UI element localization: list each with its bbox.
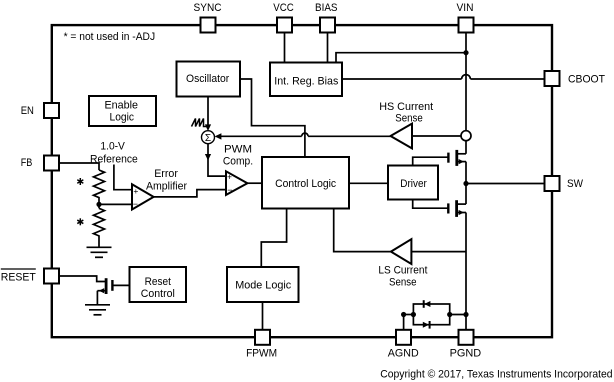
wire RESET to transistor drain	[59, 276, 106, 282]
star mark R1	[77, 178, 83, 185]
svg-text:−: −	[133, 199, 138, 209]
wire Oscillator to summing node	[207, 97, 209, 126]
svg-text:BIAS: BIAS	[315, 2, 338, 14]
svg-text:Driver: Driver	[400, 178, 427, 190]
svg-text:Sense: Sense	[395, 113, 423, 125]
svg-text:HS Current: HS Current	[379, 101, 433, 113]
svg-text:Sense: Sense	[389, 276, 417, 288]
wire sense bubble to HS amp	[412, 135, 461, 137]
svg-text:PGND: PGND	[450, 347, 482, 359]
svg-text:Mode Logic: Mode Logic	[235, 279, 291, 291]
wire Driver to HS gate	[413, 157, 449, 165]
wire Control Logic to Mode Logic	[261, 209, 286, 268]
amp LS Current Sense	[391, 239, 412, 264]
wire Driver to LS gate	[413, 200, 449, 209]
block Int. Reg. Bias	[270, 63, 342, 97]
wire AGND to diode pair	[403, 315, 405, 330]
diode D2 (lower, pointing right)	[423, 322, 429, 328]
transistor HS MOSFET	[448, 150, 466, 166]
wire diode pair to PGND line	[447, 312, 452, 317]
wire divider node to error amplifier - input	[99, 203, 132, 205]
junction divider node	[96, 202, 101, 207]
diode D1 (upper, pointing left)	[424, 301, 430, 307]
wire error amplifier output to PWM comparator - input	[154, 190, 226, 197]
svg-text:FPWM: FPWM	[246, 348, 277, 360]
resistor R1 (upper, starred)	[94, 170, 105, 208]
svg-text:Copyright © 2017, Texas Instru: Copyright © 2017, Texas Instruments Inco…	[380, 368, 612, 380]
wire HS current sense to summing node (arrow, hop over osc line)	[308, 135, 390, 137]
svg-text:AGND: AGND	[388, 347, 419, 359]
svg-text:Int. Reg. Bias: Int. Reg. Bias	[274, 76, 338, 88]
pin VIN	[459, 18, 474, 33]
pin FB	[44, 156, 59, 171]
svg-text:Reset: Reset	[145, 276, 171, 288]
svg-text:Comp.: Comp.	[223, 156, 253, 168]
block Driver	[388, 166, 438, 200]
block Oscillator	[177, 62, 241, 97]
svg-text:Amplifier: Amplifier	[146, 180, 187, 192]
IC outer border	[52, 25, 552, 337]
wire VIN to Int. Reg. Bias top	[336, 53, 466, 63]
resistor R2 (lower, starred)	[94, 208, 105, 247]
svg-text:SYNC: SYNC	[194, 2, 222, 14]
op-amp Error Amplifier	[132, 184, 154, 209]
transistor reset MOSFET (gate right)	[97, 278, 129, 304]
pin BIAS	[320, 18, 335, 33]
pin EN	[44, 103, 59, 118]
svg-text:VCC: VCC	[273, 2, 294, 14]
amp HS Current Sense	[391, 124, 413, 149]
wire Control Logic to Driver	[349, 182, 388, 184]
svg-text:EN: EN	[21, 105, 34, 117]
block Mode Logic	[227, 267, 299, 302]
ground (divider)	[87, 247, 112, 257]
wire Mode Logic to FPWM	[262, 302, 264, 330]
svg-text:Control: Control	[141, 288, 175, 300]
current sense bubble	[461, 131, 471, 141]
svg-text:* = not used in -ADJ: * = not used in -ADJ	[64, 31, 156, 43]
svg-text:Control Logic: Control Logic	[275, 178, 336, 190]
wire VIN vertical net	[465, 33, 467, 154]
svg-text:RESET: RESET	[1, 272, 36, 284]
wire SW node to SW pin	[466, 183, 545, 185]
wire PWM comparator output to Control Logic	[247, 182, 262, 184]
wire Oscillator to Control Logic	[240, 79, 305, 157]
wire Int. Reg. Bias to CBOOT (with hop over VIN line)	[342, 78, 462, 80]
svg-text:CBOOT: CBOOT	[568, 73, 605, 85]
svg-text:SW: SW	[567, 178, 584, 190]
svg-text:1.0-V: 1.0-V	[100, 140, 125, 152]
svg-text:Logic: Logic	[110, 112, 135, 124]
pin RESET (active low)	[44, 269, 59, 284]
pin SYNC	[201, 18, 216, 33]
comparator PWM Comp.	[226, 171, 247, 195]
svg-text:+: +	[133, 186, 138, 196]
block Control Logic	[262, 157, 349, 209]
wire LS amp input from source line	[411, 251, 466, 253]
wire reference to error amplifier + input	[114, 165, 131, 190]
svg-text:PWM: PWM	[224, 144, 252, 156]
diode pair loop	[413, 304, 449, 325]
ground (reset MOSFET)	[85, 305, 110, 315]
pin CBOOT	[545, 71, 560, 86]
wire VCC to Int. Reg. Bias	[284, 33, 286, 63]
wire FB to divider	[59, 163, 99, 170]
sawtooth ramp symbol	[192, 119, 207, 127]
svg-text:−: −	[227, 185, 232, 195]
svg-text:FB: FB	[21, 157, 33, 169]
junction VIN / Int. Reg. Bias feed	[463, 50, 468, 55]
svg-text:Oscillator: Oscillator	[186, 73, 230, 85]
block Enable Logic	[89, 96, 156, 126]
svg-text:VIN: VIN	[457, 2, 474, 14]
svg-text:LS Current: LS Current	[378, 265, 427, 277]
summing node sigma	[202, 131, 215, 144]
svg-text:Enable: Enable	[105, 99, 139, 111]
pin AGND	[396, 330, 411, 345]
wire summing node to PWM comparator + input (mid arrow)	[208, 144, 226, 176]
svg-text:Error: Error	[154, 168, 178, 180]
svg-text:Σ: Σ	[205, 133, 211, 144]
junction SW node	[463, 181, 468, 186]
pin SW	[545, 176, 560, 191]
star mark R2	[77, 218, 83, 225]
pin VCC	[277, 18, 292, 33]
wire Control Logic to LS current sense	[334, 209, 391, 252]
svg-text:+: +	[227, 172, 232, 182]
pin FPWM	[255, 330, 270, 345]
pin PGND	[459, 330, 474, 345]
wire BIAS to Int. Reg. Bias	[327, 33, 329, 63]
block Reset Control	[130, 267, 187, 302]
transistor LS MOSFET	[448, 200, 466, 217]
